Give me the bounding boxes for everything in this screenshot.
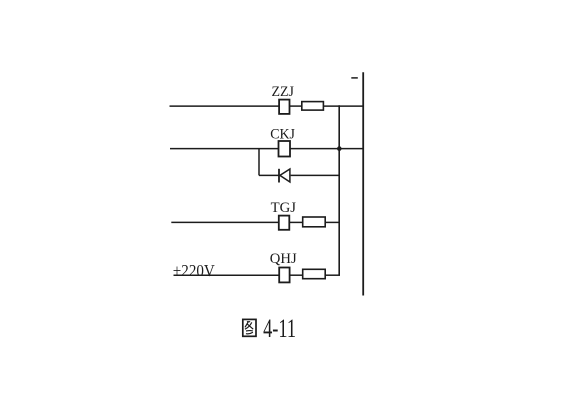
svg-text:TGJ: TGJ <box>271 200 297 216</box>
wire: row 3 left segment <box>171 221 278 223</box>
wire: row 1 link between coil and resistor <box>290 105 302 107</box>
diode VD (cathode bar) <box>278 169 280 183</box>
wire: branch down from row 2 to diode <box>258 149 260 176</box>
resistor in ZZJ row (horizontal box) <box>302 102 324 111</box>
wire: row 3 link between coil and resistor <box>289 221 302 223</box>
svg-text:CKJ: CKJ <box>270 126 295 142</box>
wire: row 4 right segment to inner vertical <box>325 274 340 276</box>
svg-text:4-11: 4-11 <box>263 314 296 343</box>
resistor in TGJ row (horizontal box) <box>303 217 326 227</box>
svg-text:+220V: +220V <box>173 261 216 280</box>
junction dot row2 / inner vertical <box>337 146 342 151</box>
negative polarity mark "-" <box>351 77 358 79</box>
wire: row 4 left segment <box>174 274 280 276</box>
wire: inner vertical node joining all rows <box>338 105 340 275</box>
relay coil CKJ (vertical box) <box>279 141 291 157</box>
wire: row 1 left segment <box>170 105 280 107</box>
diode VD (triangle, pointing left) <box>280 169 290 182</box>
caption character "图" (drawn) <box>243 319 256 336</box>
wire: row 1 right segment to bus <box>323 105 363 107</box>
wire: row 4 link between coil and resistor <box>290 274 303 276</box>
relay coil ZZJ (vertical box) <box>279 100 289 114</box>
wire: row 2 left segment <box>170 148 279 150</box>
wire: diode row left segment <box>259 174 279 176</box>
relay coil TGJ (vertical box) <box>279 216 290 230</box>
relay coil QHJ (vertical box) <box>279 268 289 283</box>
negative bus (right vertical supply line) <box>362 72 364 295</box>
wire: row 3 right segment to inner vertical <box>325 221 340 223</box>
svg-text:ZZJ: ZZJ <box>272 84 295 100</box>
svg-text:QHJ: QHJ <box>270 251 297 267</box>
wire: diode row right segment <box>291 174 340 176</box>
resistor in QHJ row (horizontal box) <box>303 269 326 278</box>
wire: row 2 right segment to bus <box>290 148 363 150</box>
